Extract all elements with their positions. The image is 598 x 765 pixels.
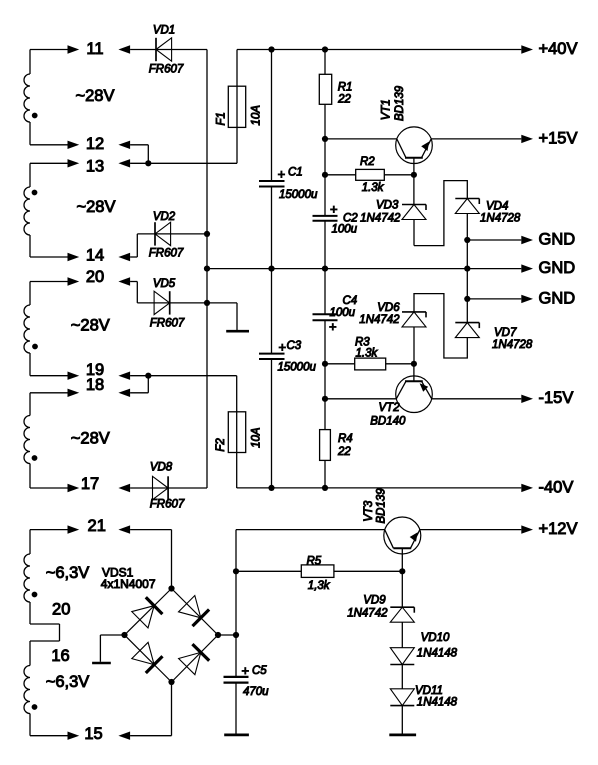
- svg-text:~28V: ~28V: [71, 317, 110, 335]
- svg-text:R4: R4: [338, 433, 353, 445]
- svg-text:1N4742: 1N4742: [359, 314, 400, 326]
- svg-text:FR607: FR607: [150, 317, 185, 329]
- svg-text:VD11: VD11: [415, 685, 443, 697]
- svg-text:14: 14: [86, 246, 104, 264]
- svg-text:F2: F2: [215, 438, 227, 452]
- svg-text:BD139: BD139: [376, 488, 388, 524]
- svg-text:-40V: -40V: [539, 478, 574, 496]
- svg-text:22: 22: [337, 446, 351, 458]
- svg-text:VT3: VT3: [363, 500, 375, 522]
- svg-text:1N4148: 1N4148: [417, 648, 458, 660]
- svg-text:20: 20: [52, 601, 70, 619]
- svg-text:15: 15: [84, 725, 102, 743]
- svg-text:+40V: +40V: [539, 40, 578, 58]
- svg-text:10A: 10A: [251, 427, 263, 448]
- svg-text:GND: GND: [539, 289, 576, 307]
- svg-text:VD8: VD8: [150, 461, 173, 473]
- svg-text:~6,3V: ~6,3V: [46, 673, 90, 691]
- svg-text:GND: GND: [539, 230, 576, 248]
- svg-text:22: 22: [337, 93, 351, 105]
- svg-text:20: 20: [86, 268, 104, 286]
- svg-text:F1: F1: [216, 112, 228, 125]
- svg-text:1.3k: 1.3k: [362, 182, 385, 194]
- svg-text:+: +: [278, 167, 286, 182]
- svg-text:R1: R1: [338, 82, 353, 94]
- svg-text:VD10: VD10: [421, 632, 450, 644]
- svg-text:VT1: VT1: [381, 99, 393, 120]
- svg-text:R2: R2: [360, 156, 375, 168]
- svg-text:1N4742: 1N4742: [347, 607, 388, 619]
- svg-text:15000u: 15000u: [278, 362, 317, 374]
- svg-text:10A: 10A: [250, 105, 262, 126]
- svg-text:100u: 100u: [332, 223, 358, 235]
- svg-text:R5: R5: [307, 555, 322, 567]
- svg-text:470u: 470u: [243, 686, 269, 698]
- svg-text:100u: 100u: [330, 307, 356, 319]
- svg-text:FR607: FR607: [150, 498, 185, 510]
- svg-text:+12V: +12V: [539, 520, 578, 538]
- svg-text:VD9: VD9: [363, 595, 386, 607]
- svg-text:VD4: VD4: [486, 201, 508, 213]
- svg-text:+: +: [330, 202, 338, 217]
- svg-text:BD140: BD140: [370, 416, 406, 428]
- svg-text:~28V: ~28V: [76, 87, 115, 105]
- svg-text:VD7: VD7: [494, 327, 517, 339]
- svg-text:1N4742: 1N4742: [360, 212, 401, 224]
- svg-text:FR607: FR607: [149, 63, 184, 75]
- svg-text:+15V: +15V: [539, 130, 578, 148]
- svg-text:FR607: FR607: [149, 247, 184, 259]
- svg-text:1.3k: 1.3k: [356, 347, 379, 359]
- svg-text:C3: C3: [287, 340, 302, 352]
- svg-text:13: 13: [86, 157, 104, 175]
- svg-text:1N4148: 1N4148: [417, 697, 458, 709]
- svg-text:VD6: VD6: [377, 302, 400, 314]
- svg-text:VD5: VD5: [153, 278, 176, 290]
- svg-text:C5: C5: [252, 665, 267, 677]
- svg-text:C4: C4: [343, 295, 358, 307]
- svg-text:VD3: VD3: [376, 199, 399, 211]
- svg-text:GND: GND: [539, 259, 576, 277]
- svg-text:17: 17: [81, 475, 99, 493]
- svg-text:1N4728: 1N4728: [492, 339, 533, 351]
- svg-text:21: 21: [88, 517, 106, 535]
- svg-text:-15V: -15V: [539, 389, 574, 407]
- svg-text:+: +: [242, 663, 250, 678]
- svg-text:+: +: [279, 340, 287, 355]
- svg-text:11: 11: [86, 40, 103, 58]
- svg-text:18: 18: [86, 376, 104, 394]
- svg-text:4x1N4007: 4x1N4007: [101, 577, 156, 591]
- svg-text:1N4728: 1N4728: [480, 213, 521, 225]
- svg-text:15000u: 15000u: [279, 189, 318, 201]
- svg-text:~28V: ~28V: [77, 198, 116, 216]
- svg-text:VT2: VT2: [379, 402, 401, 414]
- svg-text:12: 12: [86, 135, 104, 153]
- svg-text:VD1: VD1: [153, 24, 175, 36]
- svg-text:1,3k: 1,3k: [308, 580, 331, 592]
- svg-text:VD2: VD2: [153, 211, 176, 223]
- svg-text:BD139: BD139: [394, 85, 406, 121]
- svg-text:~28V: ~28V: [71, 430, 110, 448]
- svg-text:+: +: [329, 319, 337, 334]
- svg-text:~6,3V: ~6,3V: [46, 564, 90, 582]
- svg-text:C1: C1: [288, 167, 303, 179]
- svg-text:16: 16: [51, 647, 69, 665]
